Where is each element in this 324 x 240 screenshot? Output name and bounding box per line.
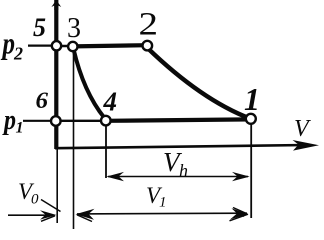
label p2 xyxy=(0,26,23,64)
svg-text:1: 1 xyxy=(159,195,167,211)
svg-text:2: 2 xyxy=(13,44,23,64)
svg-text:3: 3 xyxy=(67,13,81,44)
label Vh xyxy=(163,147,188,181)
extension line below point 1 xyxy=(250,124,252,218)
discharge line 3-2 xyxy=(73,45,147,46)
label V0 xyxy=(18,179,39,208)
point 1 xyxy=(246,114,256,124)
V axis xyxy=(55,140,319,151)
svg-text:0: 0 xyxy=(31,192,39,208)
svg-text:p: p xyxy=(2,104,16,136)
V0 leader line xyxy=(41,200,61,212)
label p1 xyxy=(2,104,24,137)
point 4 xyxy=(101,116,111,126)
segment 5-3 xyxy=(56,45,73,47)
svg-text:6: 6 xyxy=(36,88,49,113)
svg-text:4: 4 xyxy=(103,87,118,117)
Vh dimension line xyxy=(106,172,249,181)
p2 tick xyxy=(28,44,52,46)
point 5 xyxy=(52,41,61,50)
svg-text:5: 5 xyxy=(33,13,46,42)
svg-text:h: h xyxy=(179,161,188,181)
V0 outside arrow xyxy=(8,210,57,221)
point 3 xyxy=(68,42,77,51)
expansion curve 3-4 xyxy=(74,49,105,118)
label V1 xyxy=(146,183,167,211)
point 6 xyxy=(51,116,61,126)
V1 dimension line xyxy=(76,208,249,222)
svg-text:2: 2 xyxy=(139,7,159,43)
p1 tick xyxy=(23,120,51,122)
svg-text:1: 1 xyxy=(16,120,24,137)
svg-text:p: p xyxy=(0,26,15,61)
extension line below point 3 xyxy=(73,52,75,229)
suction line 4-1 xyxy=(106,119,251,120)
p axis xyxy=(51,0,61,149)
svg-text:1: 1 xyxy=(244,81,260,117)
extension line below point 4 xyxy=(105,125,107,178)
svg-text:V: V xyxy=(294,116,311,142)
compression curve 1-2 xyxy=(148,48,251,119)
segment 6-4 xyxy=(56,120,106,122)
point 2 xyxy=(143,41,153,51)
extension line below p axis (V=0) xyxy=(56,149,58,223)
